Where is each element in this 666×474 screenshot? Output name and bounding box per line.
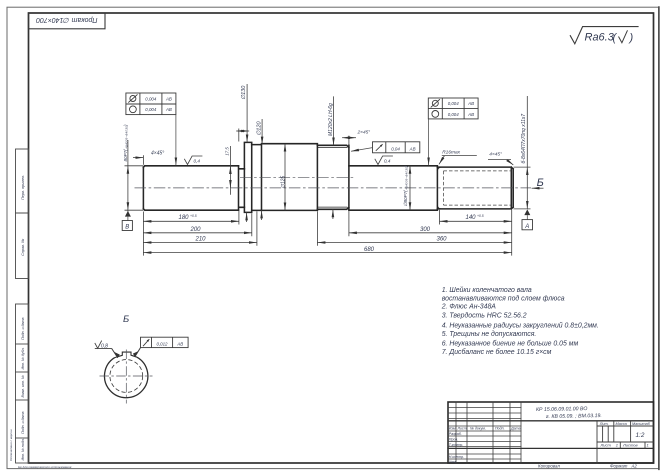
svg-text:1: 1: [616, 443, 618, 448]
svg-text:4×45°: 4×45°: [489, 152, 502, 158]
svg-text:1. Шейки коленчатого вала: 1. Шейки коленчатого вала: [442, 286, 532, 294]
title block outer: [448, 402, 654, 463]
svg-text:210: 210: [195, 237, 207, 243]
thread section M120: [317, 145, 349, 209]
svg-text:Лист: Лист: [600, 443, 612, 448]
svg-text:Не для коммерческого использов: Не для коммерческого использования: [18, 465, 72, 469]
spline fillet R16: [437, 167, 440, 209]
svg-text:№ докум.: № докум.: [470, 427, 486, 431]
datum flag V: [122, 211, 132, 231]
right part verticals: [597, 421, 654, 463]
svg-text:б-8х64П7х70пq х11ѕ7: б-8х64П7х70пq х11ѕ7: [521, 114, 527, 164]
svg-text:Дата: Дата: [510, 427, 520, 431]
svg-text:АВ: АВ: [467, 101, 474, 106]
left margin box group bottom: [16, 304, 29, 463]
svg-text:Н.контр.: Н.контр.: [449, 455, 464, 459]
svg-text:КР 15.06.09.01.00 ВО: КР 15.06.09.01.00 ВО: [536, 406, 588, 413]
svg-text:2×45°: 2×45°: [357, 130, 371, 136]
thread minor lines: [317, 148, 347, 208]
svg-text:0,8: 0,8: [101, 343, 108, 349]
svg-text:Подп. и дата: Подп. и дата: [21, 318, 25, 341]
svg-text:0,4: 0,4: [194, 159, 201, 164]
svg-text:6. Неуказанное биение не больш: 6. Неуказанное биение не больше 0.05 мм: [442, 340, 579, 348]
rotated dia labels: [123, 85, 527, 207]
svg-text:+0.5: +0.5: [477, 214, 484, 218]
dim line 360: [317, 242, 511, 244]
svg-text:5. Трещины не допускаются.: 5. Трещины не допускаются.: [442, 330, 537, 338]
svg-text:180: 180: [179, 215, 190, 221]
extension lines below shaft: [143, 210, 511, 256]
roughness Ra6.3 top right: [570, 27, 639, 44]
svg-text:Ra6.3: Ra6.3: [585, 32, 615, 44]
spline dia dim: [514, 167, 531, 209]
svg-text:востанавливаются под слоем флю: востанавливаются под слоем флюса: [442, 294, 565, 302]
svg-text:Б: Б: [123, 314, 129, 325]
roughness 0.4 left: [184, 156, 202, 165]
left margin box Perv.primen: [16, 149, 29, 213]
header row labels: [449, 427, 521, 464]
svg-text:Лит.: Лит.: [599, 422, 609, 426]
chamfer 4x45 left: [142, 155, 144, 165]
svg-text:Взам. инв. №: Взам. инв. №: [21, 375, 25, 397]
dia 130 dim: [246, 84, 248, 142]
svg-text:0,004: 0,004: [145, 96, 157, 101]
svg-text:4. Неуказанные радиусы закругл: 4. Неуказанные радиусы закруглений 0.8±0…: [442, 322, 599, 330]
right journal dia dim: [409, 166, 411, 210]
svg-text:360: 360: [437, 237, 448, 243]
svg-text:80Р7(₊ₐ₄₀₀₉₋ₐ₄₀₃₀): 80Р7(₊ₐ₄₀₀₉₋ₐ₄₀₃₀): [123, 124, 128, 161]
SHAFT: [143, 142, 513, 212]
dim line 210: [143, 242, 257, 244]
svg-text:Инв. № дубл.: Инв. № дубл.: [21, 347, 25, 369]
left grid horizontals: [448, 408, 521, 460]
svg-text:7. Дисбаланс не более 10.15 г×: 7. Дисбаланс не более 10.15 г×см: [442, 348, 552, 356]
svg-text:140: 140: [466, 215, 477, 221]
svg-text:3. Твердость HRC 52.56.2: 3. Твердость HRC 52.56.2: [442, 311, 527, 319]
svg-text:Инв. № подл.: Инв. № подл.: [21, 438, 25, 460]
view B arrow: [532, 187, 544, 189]
17.5 dim: [229, 146, 231, 195]
svg-text:Утв.: Утв.: [449, 460, 457, 464]
M120 dim: [333, 96, 335, 145]
svg-text:2. Флюс Ан-348А: 2. Флюс Ан-348А: [441, 303, 497, 310]
svg-text:А2: А2: [631, 463, 638, 468]
crank pin D125: [262, 144, 318, 211]
svg-text:0,004: 0,004: [448, 101, 460, 106]
svg-text:Листов: Листов: [622, 443, 638, 448]
dim line 200: [143, 232, 251, 234]
svg-text:Справ. №: Справ. №: [21, 239, 25, 256]
svg-text:Пров.: Пров.: [449, 437, 458, 441]
svg-text:∅125: ∅125: [280, 176, 286, 189]
svg-text:0,004: 0,004: [448, 112, 460, 117]
tolerance frame runout right: [373, 142, 420, 153]
svg-text:Перв. примен.: Перв. примен.: [21, 175, 25, 200]
sheet right edge dark line: [658, 7, 660, 469]
left margin box Sprav: [16, 213, 29, 279]
svg-text:АВ: АВ: [176, 341, 183, 346]
thick dividers: [448, 420, 654, 422]
svg-text:+0.5: +0.5: [190, 214, 197, 218]
main axis centerline: [135, 187, 532, 189]
svg-text:17.5: 17.5: [224, 147, 229, 156]
svg-text:АВ: АВ: [165, 107, 172, 112]
svg-text:Копировал: Копировал: [538, 463, 560, 468]
svg-text:Отпечатано с версии: Отпечатано с версии: [9, 429, 13, 461]
svg-text:Прокат ∅140×700: Прокат ∅140×700: [36, 16, 97, 23]
tolerance frame 0.012: [141, 337, 189, 347]
svg-text:∅120: ∅120: [257, 121, 263, 136]
spline minor dia dashed: [444, 171, 512, 205]
frame leader: [135, 348, 141, 357]
svg-text:М120х2 LH-6g: М120х2 LH-6g: [328, 103, 334, 136]
svg-text:0,04: 0,04: [391, 146, 400, 151]
roughness 0.8 leader: [95, 341, 112, 349]
collar D130: [244, 142, 251, 212]
svg-text:В: В: [125, 225, 129, 231]
left journal D80 outline: [143, 166, 238, 210]
stock label box: [29, 13, 106, 29]
svg-text:Б: Б: [537, 177, 544, 189]
R16max leader: [442, 155, 477, 157]
svg-text:∅80Р7(₊ₐ₄₀₀₉₋ₐ₄₀₃₀): ∅80Р7(₊ₐ₄₀₀₉₋ₐ₄₀₃₀): [403, 165, 408, 206]
neck groove: [239, 166, 245, 210]
svg-text:680: 680: [364, 247, 375, 253]
chamfer 2x45 right arrows: [348, 136, 350, 146]
inner dashed circle: [110, 360, 143, 393]
svg-text:200: 200: [190, 227, 202, 233]
tolerance frame group left (cylindricity/roundness): [126, 93, 176, 115]
svg-text:4×45°: 4×45°: [151, 151, 164, 157]
dim line 680: [143, 252, 511, 254]
4x45 right leader: [488, 159, 511, 161]
svg-text:1: 1: [647, 443, 649, 448]
svg-text:0,004: 0,004: [145, 107, 157, 112]
svg-text:Разраб.: Разраб.: [449, 432, 462, 436]
left journal dia dim: [125, 166, 144, 210]
svg-text:R16max: R16max: [442, 149, 460, 155]
SECTIONB: [95, 314, 188, 404]
right journal D80: [349, 166, 438, 210]
section circle with keyway: [104, 352, 147, 398]
svg-text:АВ: АВ: [467, 112, 474, 117]
list row: [600, 443, 649, 448]
svg-text:А: А: [524, 224, 529, 230]
dim line 140: [440, 220, 512, 222]
datum flag A: [522, 209, 533, 229]
svg-text:0,012: 0,012: [157, 341, 169, 346]
TECHREQ: [441, 286, 599, 356]
DIMS: [125, 84, 544, 256]
chamfer 2x45 2 faski arrows: [238, 129, 240, 142]
svg-text:г. КВ 05.09. ; ВМ.03.19.: г. КВ 05.09. ; ВМ.03.19.: [546, 413, 602, 420]
svg-text:0,4: 0,4: [384, 159, 391, 164]
dia125 dim: [284, 144, 286, 211]
chamfer and note texts: [151, 130, 502, 158]
svg-text:∅130: ∅130: [241, 85, 247, 100]
svg-text:АВ: АВ: [165, 96, 172, 101]
crank axis centerline: [240, 176, 354, 178]
lit massa masshtab: [599, 422, 651, 426]
section D120: [252, 145, 262, 211]
spline section outline: [437, 167, 513, 209]
svg-text:Т.контр.: Т.контр.: [449, 443, 464, 447]
svg-text:Подп.: Подп.: [495, 427, 505, 431]
dim line 300: [349, 232, 512, 234]
roughness 0.4 right: [375, 156, 393, 165]
left grid verticals: [456, 402, 521, 463]
FRAMES2: [126, 93, 478, 165]
faint designation text: [536, 406, 602, 420]
svg-text:Масса: Масса: [616, 422, 627, 426]
svg-text:Формат: Формат: [610, 463, 628, 468]
svg-text:1:2: 1:2: [636, 432, 645, 439]
svg-text:АВ: АВ: [409, 146, 416, 151]
dim line 180: [143, 220, 239, 222]
dia 120 dim: [261, 119, 263, 145]
svg-text:Масштаб: Масштаб: [632, 422, 651, 426]
svg-text:Изм. Лист: Изм. Лист: [449, 427, 467, 431]
TITLEBLOCK: [448, 402, 654, 468]
section centerlines: [100, 350, 153, 404]
tolerance frame group right (cylindricity/roundness): [428, 98, 478, 119]
dim texts: [179, 214, 484, 253]
svg-text:Подп. и дата: Подп. и дата: [21, 412, 25, 435]
svg-text:300: 300: [420, 227, 431, 233]
